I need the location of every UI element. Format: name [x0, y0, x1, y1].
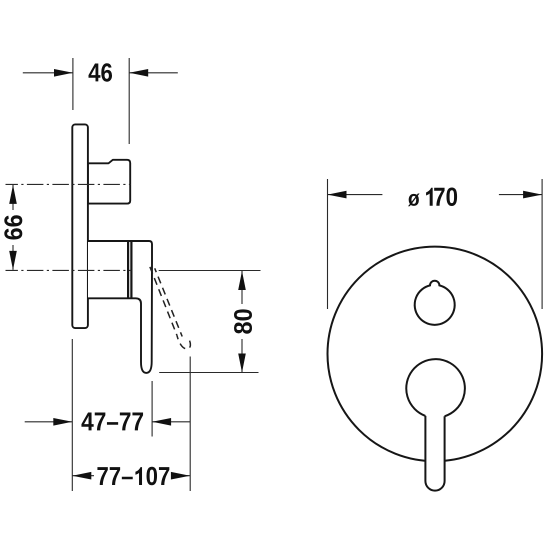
dim 80: upper arrowhead: [238, 271, 246, 290]
dim 46: right extension line: [128, 58, 130, 144]
front view: diverter button with top nib: [415, 281, 455, 325]
dim 47-77: right arrowhead: [152, 418, 171, 426]
dim dia170: right arrowhead: [523, 191, 542, 199]
dim dia170: right extension line: [541, 179, 543, 309]
front view: lever shaft outline: [425, 416, 444, 491]
extension line from wall plate (left, to bottom dims): [71, 339, 73, 491]
extension line from closed lever tip: [151, 381, 153, 437]
dimension text ø 170: [408, 188, 457, 207]
dim 77-107: left arrowhead: [72, 472, 91, 480]
dim 80: dimension line lower segment: [241, 339, 243, 373]
dim dia170: dimension line left segment: [328, 194, 383, 196]
dim 80: lower arrowhead: [238, 354, 246, 373]
front view: lever handle hub: [406, 359, 465, 416]
front view: round face plate (dia 170): [328, 247, 543, 462]
dim 47-77: right leader shaft: [152, 421, 190, 423]
dim 77-107: dimension line right segment: [173, 475, 190, 477]
dim 66: lower arrowhead: [9, 251, 17, 270]
dim 46: left extension line: [72, 58, 74, 110]
dim 80: top extension line: [159, 270, 261, 272]
side view: lever handle open position, dashed end cap: [177, 335, 191, 349]
front view: lever shaft white mask: [425, 410, 444, 491]
dimension text 66 (rotated): [4, 215, 22, 239]
dimension text 80 (rotated): [234, 309, 252, 333]
side view: diverter knob: [88, 160, 130, 204]
dim 46: right arrowhead: [129, 69, 148, 77]
dimension text 47-77: [81, 413, 143, 431]
dim 77-107: dimension line left segment: [72, 475, 94, 477]
dim dia170: left extension line: [327, 179, 329, 309]
dim 47-77: left arrowhead: [53, 418, 72, 426]
dim 46: left leader shaft: [23, 72, 73, 74]
side view: sleeve/handle joint line (front): [130, 241, 132, 298]
side view: concealed mixer, wall plate: [72, 124, 88, 328]
dim 66: dimension line upper segment: [12, 185, 14, 210]
side view: lever handle open position, dashed right edge: [155, 268, 183, 336]
dim 46: left arrowhead: [54, 69, 73, 77]
side view: mixer sleeve and lever handle (closed position): [88, 241, 152, 373]
dimension text 46: [89, 63, 112, 82]
dim dia170: left arrowhead: [328, 191, 347, 199]
dim 80: bottom extension line: [159, 372, 258, 374]
dim 66: upper arrowhead: [9, 185, 17, 204]
extension line from open lever tip: [189, 357, 191, 492]
dim 80: dimension line upper segment: [241, 271, 243, 304]
dim 66: dimension line lower segment: [12, 245, 14, 270]
side view: lever handle open position, dashed left edge: [150, 267, 177, 335]
dim dia170: dimension line right segment: [499, 194, 542, 196]
centerline: lever handle axis: [6, 269, 132, 271]
centerline: diverter knob axis: [6, 183, 131, 185]
side view: sleeve/handle joint line (rear): [127, 241, 129, 298]
dim 46: right leader shaft: [129, 72, 178, 74]
dim 47-77: left leader shaft: [25, 421, 73, 423]
dimension text 77-107: [97, 467, 169, 486]
dim 77-107: right arrowhead: [171, 472, 190, 480]
